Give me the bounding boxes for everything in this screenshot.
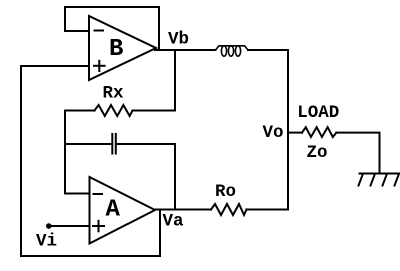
svg-text:Vo: Vo (263, 123, 284, 143)
svg-text:Vb: Vb (168, 30, 189, 50)
svg-text:LOAD: LOAD (297, 103, 339, 123)
svg-text:B: B (109, 36, 123, 63)
svg-text:A: A (106, 197, 121, 224)
svg-text:Va: Va (163, 212, 185, 232)
svg-text:Ro: Ro (215, 182, 236, 202)
svg-text:Vi: Vi (36, 232, 57, 252)
svg-text:Zo: Zo (307, 143, 328, 163)
svg-text:Rx: Rx (103, 84, 125, 104)
